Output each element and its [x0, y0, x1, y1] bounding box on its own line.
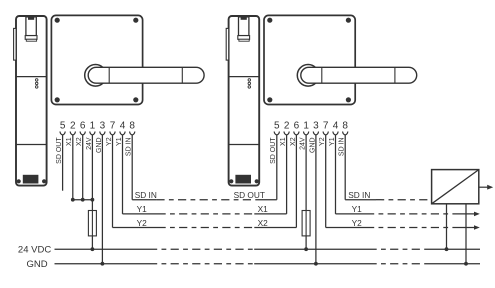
svg-text:4: 4 [120, 121, 126, 132]
junction lock2 GND bus [314, 262, 318, 266]
svg-text:Y1: Y1 [137, 204, 148, 214]
svg-text:24V: 24V [300, 137, 307, 150]
svg-text:X1: X1 [66, 137, 73, 146]
wire lock2 pin1 24V down to fuse [305, 135, 307, 211]
bus 24VDC [55, 248, 150, 250]
svg-text:6: 6 [80, 121, 86, 132]
junction 24V [91, 198, 95, 202]
lock1 LED dots [35, 79, 38, 82]
svg-text:GND: GND [26, 259, 47, 270]
lock1 body divider upper [16, 76, 47, 78]
lock2 body divider upper [229, 76, 260, 78]
lock2 escutcheon plate [264, 15, 355, 104]
svg-text:SD OUT: SD OUT [234, 190, 265, 200]
wire lock2 pin2 X1 down [286, 135, 288, 214]
svg-text:X1: X1 [280, 137, 287, 146]
net Y2 out to next unit [326, 227, 366, 229]
lock1 bottom screws [17, 179, 21, 183]
wire fuse F1 to 24VDC bus [91, 236, 93, 249]
svg-text:Y2: Y2 [319, 137, 326, 146]
svg-text:Y2: Y2 [106, 137, 113, 146]
fuse F2 [302, 211, 310, 236]
wire lock1 pin3 GND down [101, 135, 103, 264]
svg-text:Y1: Y1 [352, 204, 363, 214]
lock1 bottom connector block [23, 175, 39, 184]
lock2 bottom connector block [235, 175, 251, 184]
fuse F1 [91, 211, 93, 236]
wire lock2 pin5 SD OUT down [276, 135, 278, 200]
wire lock1 pin2 X1 down [72, 135, 74, 200]
svg-text:SD IN: SD IN [126, 137, 133, 156]
lock1 escutcheon plate [51, 15, 142, 104]
lock2 slot bracket [238, 36, 250, 40]
wire lock1 pin8 SD IN down [131, 135, 133, 200]
wire lock1 pin4 Y1 down [122, 135, 124, 214]
svg-text:7: 7 [323, 121, 329, 132]
lock2 handle rosette [297, 65, 319, 87]
svg-text:5: 5 [60, 121, 66, 132]
wire lock1 pin1 24V down to fuse [91, 135, 93, 211]
wire lock2 pin4 Y1 down [335, 135, 337, 214]
svg-text:X2: X2 [290, 137, 297, 146]
junction X2 [81, 198, 85, 202]
svg-text:1: 1 [90, 121, 96, 132]
wire lock2 pin6 X2 down [295, 135, 297, 228]
net Y1 out to next unit [336, 213, 367, 215]
junction U1/GND [464, 262, 468, 266]
lock2 reader/cylinder unit body [229, 16, 260, 186]
svg-text:2: 2 [70, 121, 76, 132]
svg-text:1: 1 [303, 121, 309, 132]
wire U1 to GND bus [465, 204, 467, 264]
junction F1/24VDC [91, 247, 95, 251]
svg-text:SD IN: SD IN [339, 137, 346, 156]
lock1 slot bracket [25, 36, 37, 40]
svg-text:X2: X2 [76, 137, 83, 146]
svg-text:8: 8 [129, 121, 135, 132]
wire lock2 pin3 GND down [315, 135, 317, 264]
svg-text:SD OUT: SD OUT [270, 137, 277, 164]
svg-text:SD IN: SD IN [135, 190, 157, 200]
net SD: lock1 SD IN to lock2 SD OUT [132, 199, 156, 201]
svg-text:Y1: Y1 [329, 137, 336, 146]
lock1 side tab [14, 28, 17, 60]
jumper X1-X2-24V [73, 199, 93, 201]
svg-text:24V: 24V [86, 137, 93, 150]
lock1 slot dark insert [28, 17, 34, 20]
lock1 handle rosette [85, 65, 107, 87]
lock2 lever handle [301, 67, 417, 83]
wire U1 to 24VDC bus [446, 204, 448, 249]
net Y2/X2: lock1 Y2 to lock2 X2 [113, 227, 158, 229]
svg-text:SD IN: SD IN [348, 190, 370, 200]
lock1 plate screws [55, 18, 60, 23]
lock1 reader/cylinder unit body [16, 16, 47, 186]
svg-text:Y2: Y2 [352, 218, 363, 228]
svg-text:7: 7 [110, 121, 116, 132]
wire lock1 pin7 Y2 down [112, 135, 114, 228]
svg-text:GND: GND [96, 137, 103, 153]
svg-text:Y2: Y2 [137, 218, 148, 228]
junction U1/24VDC [445, 247, 449, 251]
bus GND [55, 263, 150, 265]
lock2 side tab [226, 28, 229, 60]
net Y1/X1: lock1 Y1 to lock2 X1 [123, 213, 158, 215]
wire fuse F2 to 24VDC bus [305, 236, 307, 249]
svg-text:2: 2 [284, 121, 290, 132]
svg-text:8: 8 [342, 121, 348, 132]
svg-text:24 VDC: 24 VDC [18, 245, 51, 256]
svg-text:3: 3 [100, 121, 106, 132]
lock2 body divider lower [229, 144, 260, 146]
junction lock1 GND bus [101, 262, 105, 266]
power supply output arrow [479, 186, 489, 188]
net SD: lock2 SD IN to power supply [345, 199, 376, 201]
lock2 slot dark insert [241, 17, 247, 20]
lock2 plate screws [267, 18, 272, 23]
wire lock1 pin6 X2 down [82, 135, 84, 200]
wire lock2 pin8 SD IN down [344, 135, 346, 200]
lock1 lever handle [88, 67, 204, 83]
lock2 LED dots [248, 79, 251, 82]
svg-text:X2: X2 [258, 218, 269, 228]
junction F2/24VDC [304, 247, 308, 251]
lock2 bottom screws [229, 179, 233, 183]
wire lock2 pin7 Y2 down [325, 135, 327, 228]
svg-text:X1: X1 [258, 204, 269, 214]
svg-text:Y1: Y1 [116, 137, 123, 146]
lock1 reader slot [26, 17, 36, 36]
svg-text:5: 5 [274, 121, 280, 132]
svg-text:GND: GND [309, 137, 316, 153]
svg-text:4: 4 [333, 121, 339, 132]
power supply U1 [432, 170, 479, 204]
wire lock1 pin5 SD OUT stub [62, 135, 64, 191]
lock1 body divider lower [16, 144, 47, 146]
junction X1 [71, 198, 75, 202]
svg-text:3: 3 [313, 121, 319, 132]
svg-text:SD OUT: SD OUT [56, 137, 63, 164]
svg-text:6: 6 [294, 121, 300, 132]
lock2 reader slot [239, 17, 249, 36]
